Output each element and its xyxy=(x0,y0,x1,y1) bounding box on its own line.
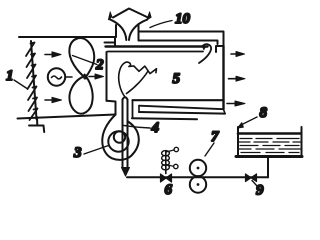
svg-text:10: 10 xyxy=(175,11,191,27)
svg-text:2: 2 xyxy=(95,57,104,73)
drain/ground symbol under louver xyxy=(29,117,44,132)
stack 10: left wall xyxy=(115,25,117,37)
leader line for 9 xyxy=(252,181,258,187)
bottom channel: left wall xyxy=(132,100,134,118)
pipe: tank down-pipe xyxy=(267,158,269,177)
arrow: outlet air bottom xyxy=(227,103,236,105)
leader line for 7 xyxy=(205,143,214,156)
pipe: discharge line to tank circuit xyxy=(127,176,268,178)
wall: chamber left wall xyxy=(106,52,108,101)
arrow: inlet air lower xyxy=(45,99,53,101)
arrow: outlet air top xyxy=(231,53,237,55)
valve 6: spring coil xyxy=(162,151,170,156)
wall: chamber top outer line xyxy=(106,45,208,47)
pump 7: upper rotor xyxy=(190,160,206,176)
svg-text:8: 8 xyxy=(260,105,268,121)
leader line for 3 xyxy=(84,146,109,155)
motor M: circle with tilde xyxy=(48,68,65,85)
tank 8: walls xyxy=(238,127,302,156)
svg-text:6: 6 xyxy=(165,182,173,198)
bottom channel: splitter slot bottom line xyxy=(139,112,225,114)
wire: left duct top line xyxy=(19,36,116,38)
arrow: pipe discharge down arrowhead xyxy=(122,168,130,177)
stack 10: right wall xyxy=(138,24,140,41)
svg-text:5: 5 xyxy=(173,71,181,87)
valve 9: bowtie xyxy=(246,174,257,182)
pump 3: inlet eye circle xyxy=(114,131,125,142)
valve 6: stem xyxy=(165,152,167,174)
arrow: outlet air middle xyxy=(229,78,238,80)
valve 6: bowtie xyxy=(161,174,172,182)
wire: left duct bottom line xyxy=(18,115,116,119)
louver hatch strokes xyxy=(26,43,38,121)
wire: top channel inner line with end hook xyxy=(139,41,218,45)
wall: chamber top inner line xyxy=(108,51,204,53)
louver 1: inlet louver line xyxy=(31,41,37,119)
pump 3: impeller circle xyxy=(108,131,128,151)
fan 2: two-lobe impeller (figure-8) xyxy=(69,38,94,78)
bottom channel: slot left & right closures xyxy=(139,106,225,114)
arrow: fan discharge into chamber xyxy=(89,76,96,78)
bottom channel: outer bottom line xyxy=(132,118,197,119)
chevron above stack xyxy=(113,9,148,18)
svg-text:7: 7 xyxy=(211,129,219,145)
wire: motor shaft to fan xyxy=(66,76,73,78)
tank 8: water hatch rows xyxy=(239,139,300,153)
bottom channel: splitter slot top line xyxy=(139,106,224,110)
valve 6: float lever arms xyxy=(166,150,174,166)
wire: top channel outer line (right of stack) xyxy=(139,31,223,33)
pump 7: rotor center dots xyxy=(197,167,200,170)
valve 6: float balls xyxy=(174,147,178,151)
pump 7: lower rotor xyxy=(190,176,206,192)
wall: chamber bottom-left step xyxy=(107,101,116,115)
leader line for 10 xyxy=(150,21,172,28)
wall: right wall upper step xyxy=(216,32,224,53)
svg-text:9: 9 xyxy=(256,183,264,199)
svg-text:4: 4 xyxy=(151,120,160,136)
svg-text:3: 3 xyxy=(73,145,82,161)
tank 8: water surface xyxy=(238,132,301,135)
leader line for 1 xyxy=(14,80,27,89)
nozzle / riser pipe 4 xyxy=(123,97,128,168)
pump 3: volute casing sweep xyxy=(102,115,139,160)
leader line for 4 xyxy=(124,126,150,129)
tank 8: bottom xyxy=(236,155,302,158)
bottom channel: outer top line xyxy=(133,99,223,101)
leader line for 8 with arrowhead xyxy=(240,117,257,126)
leader line for 2 (through fan lobe) xyxy=(73,56,98,65)
spray 5: flame-like spray plume xyxy=(119,62,157,97)
svg-text:1: 1 xyxy=(6,68,14,84)
arrow: inlet air upper xyxy=(45,54,53,56)
exhaust stream curves out of stack xyxy=(110,19,127,40)
wall: chamber right wall xyxy=(222,46,224,109)
node: chamber left step (top) xyxy=(105,37,116,47)
recirculation curl arrow xyxy=(199,44,211,63)
